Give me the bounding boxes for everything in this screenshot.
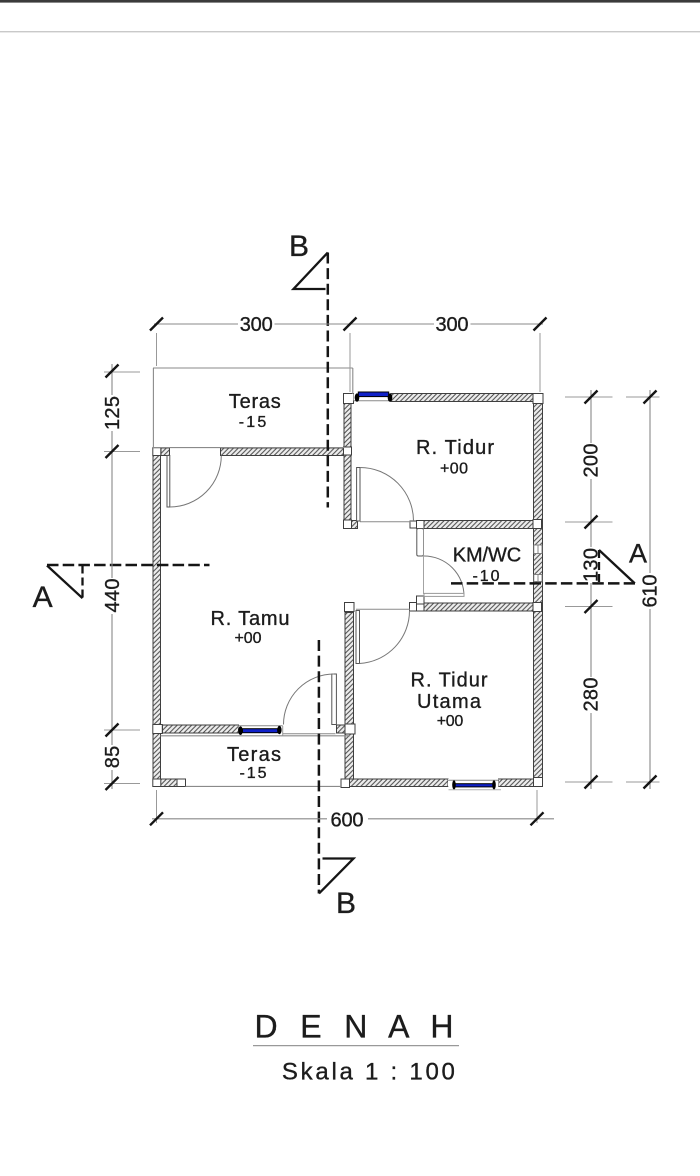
dim text 85 bbox=[102, 745, 121, 770]
wall bottom right east part bbox=[499, 779, 534, 787]
door teras->r.tamu leaf bbox=[167, 456, 170, 508]
post front west corner bbox=[153, 448, 161, 456]
svg-text:610: 610 bbox=[640, 575, 662, 608]
teras bottom slab edge bbox=[186, 785, 342, 787]
post r.tidur utama NW bbox=[345, 603, 355, 612]
post r.tidur NW bbox=[344, 394, 354, 404]
wall west outer bbox=[153, 456, 161, 780]
wall r.tidur south main bbox=[424, 521, 534, 529]
post km/wc west bottom bbox=[417, 596, 425, 604]
ext stub left t4 bbox=[104, 783, 140, 785]
teras right edge bbox=[352, 368, 354, 394]
title underline bbox=[253, 1045, 459, 1047]
vent gap east wall upper bbox=[534, 545, 542, 554]
wall r.tidur west lower bbox=[344, 455, 351, 521]
svg-text:200: 200 bbox=[581, 444, 603, 478]
threshold line utama door bbox=[356, 608, 410, 610]
ext stub far t4 bbox=[626, 781, 660, 783]
tick far t4 bbox=[644, 776, 657, 789]
wall r.tidur south stub bbox=[351, 521, 358, 529]
dim text 300 left bbox=[238, 314, 275, 333]
svg-text:B: B bbox=[336, 887, 356, 920]
tick left t1 bbox=[106, 365, 119, 378]
post r.tamu front west bbox=[153, 725, 163, 734]
tick top mid bbox=[344, 318, 357, 331]
section line A left bbox=[47, 564, 210, 567]
ext stub right t2 bbox=[565, 521, 613, 523]
svg-text:R. Tidur: R. Tidur bbox=[416, 437, 494, 459]
door r.tidur leaf bbox=[357, 468, 360, 522]
wall bottom left piece bbox=[161, 779, 178, 787]
dim text 130 bbox=[581, 547, 600, 583]
tick top right bbox=[534, 318, 547, 331]
door km/wc arc bbox=[424, 556, 464, 596]
dim text 300 right bbox=[434, 314, 471, 333]
section line B bottom bbox=[318, 640, 321, 894]
svg-text:125: 125 bbox=[102, 396, 124, 430]
svg-text:+00: +00 bbox=[235, 630, 262, 647]
dim line left bbox=[111, 364, 113, 789]
post utama door jamb bbox=[410, 603, 417, 612]
section mark A left triangle bbox=[47, 566, 83, 599]
svg-text:85: 85 bbox=[102, 746, 124, 769]
dim line top bbox=[154, 323, 543, 325]
post r.tidur west bottom bbox=[344, 520, 352, 529]
tick left t2 bbox=[106, 445, 119, 458]
vent gap east wall lower bbox=[534, 575, 542, 582]
teras slab line below r.tamu front wall bbox=[161, 735, 351, 737]
dim text 600 bbox=[327, 810, 368, 829]
svg-text:440: 440 bbox=[102, 579, 124, 613]
tick right t1 bbox=[585, 391, 598, 404]
svg-text:Teras: Teras bbox=[229, 391, 281, 413]
door main entry arc bbox=[284, 674, 335, 725]
wall r.tamu east lower bbox=[345, 734, 354, 779]
section mark A right triangle bbox=[599, 550, 635, 583]
door km/wc panel bbox=[417, 529, 424, 557]
section mark B top triangle bbox=[294, 253, 328, 290]
door main entry leaf bbox=[332, 674, 337, 725]
wall north (r.tidur top) bbox=[391, 394, 533, 402]
ext stub far t1 bbox=[626, 396, 660, 398]
svg-text:R. Tamu: R. Tamu bbox=[211, 608, 290, 630]
wall east outer bbox=[534, 394, 543, 787]
dim line bottom bbox=[152, 818, 554, 820]
threshold line r.tidur door bbox=[360, 521, 411, 523]
tick bottom left bbox=[150, 812, 163, 825]
ext line bottom right bbox=[536, 790, 538, 823]
svg-text:-15: -15 bbox=[239, 414, 267, 431]
post r.tamu front east bbox=[345, 724, 355, 734]
wall r.tamu front right bbox=[337, 725, 346, 733]
dim text 610 bbox=[640, 573, 659, 609]
wall r.tamu front left bbox=[163, 725, 239, 733]
svg-text:-10: -10 bbox=[473, 568, 500, 585]
ext line top right bbox=[539, 333, 541, 392]
svg-text:Utama: Utama bbox=[417, 691, 482, 713]
svg-text:+00: +00 bbox=[440, 460, 468, 477]
svg-text:B: B bbox=[289, 230, 309, 263]
tick right t3 bbox=[585, 600, 598, 613]
wall front left stub bbox=[161, 448, 170, 456]
wall front main (teras south) bbox=[221, 448, 345, 456]
threshold line front door bbox=[283, 733, 336, 735]
wall r.tamu east upper bbox=[345, 613, 354, 725]
post SE corner bbox=[534, 778, 543, 787]
tick bottom right bbox=[531, 812, 544, 825]
door r.tidur arc bbox=[360, 468, 414, 522]
section line A right bbox=[451, 582, 635, 585]
door km/wc leaf open bbox=[424, 593, 464, 596]
ext stub right t4 bbox=[565, 781, 613, 783]
post km/wc west wall foot bbox=[417, 603, 425, 612]
svg-text:A: A bbox=[33, 581, 53, 614]
svg-text:Skala 1 : 100: Skala 1 : 100 bbox=[282, 1059, 455, 1086]
post teras pier bbox=[177, 779, 186, 787]
svg-text:+00: +00 bbox=[437, 713, 464, 730]
teras left edge bbox=[152, 368, 154, 448]
top page divider line bbox=[0, 31, 700, 32]
tick right t4 bbox=[585, 776, 598, 789]
dim text 440 bbox=[102, 578, 121, 614]
window utama south bbox=[448, 779, 501, 790]
top page bar bbox=[0, 0, 700, 3]
post r.tidur NE bbox=[533, 394, 543, 404]
post km/wc west wall head bbox=[417, 521, 425, 529]
ext line top mid bbox=[349, 333, 351, 392]
dim line right inner bbox=[590, 390, 592, 789]
post SW corner bbox=[153, 779, 161, 787]
ext stub right t1 bbox=[565, 396, 613, 398]
dim line right outer bbox=[649, 390, 651, 789]
tick left t3 bbox=[106, 724, 119, 737]
dim text 125 bbox=[102, 395, 121, 431]
svg-text:280: 280 bbox=[581, 678, 603, 712]
svg-text:A: A bbox=[629, 539, 647, 569]
wall r.tidur west upper bbox=[344, 401, 351, 448]
door teras->r.tamu arc bbox=[170, 456, 222, 508]
post km/wc door top jamb bbox=[410, 521, 417, 528]
ext stub right t3 bbox=[565, 606, 613, 608]
door utama leaf bbox=[356, 611, 360, 664]
post east wall at km/wc south bbox=[533, 603, 542, 612]
teras top edge bbox=[153, 367, 353, 369]
dim text 200 bbox=[581, 443, 600, 479]
post utama SW corner bbox=[341, 779, 350, 788]
tick far t1 bbox=[644, 391, 657, 404]
dim text 280 bbox=[581, 677, 600, 713]
svg-text:Teras: Teras bbox=[227, 744, 281, 766]
door utama arc bbox=[360, 611, 410, 664]
window r.tidur north bbox=[354, 392, 393, 402]
ext stub left t1 bbox=[104, 371, 140, 373]
ext stub left t2 bbox=[104, 451, 140, 453]
ext stub left t3 bbox=[104, 729, 140, 731]
teras bottom thin line bbox=[153, 447, 344, 449]
tick left t4 bbox=[106, 777, 119, 790]
svg-text:600: 600 bbox=[331, 810, 364, 832]
ext line top left bbox=[156, 333, 158, 366]
section line B top bbox=[327, 253, 330, 508]
tick right t2 bbox=[585, 516, 598, 529]
km/wc west inner face line bbox=[423, 529, 425, 595]
post front / r.tidur west bbox=[344, 447, 352, 455]
svg-text:KM/WC: KM/WC bbox=[453, 545, 522, 567]
post east wall at r.tidur south bbox=[533, 520, 542, 529]
tick top left bbox=[150, 318, 163, 331]
wall bottom right west part bbox=[350, 779, 449, 787]
window r.tamu front bbox=[238, 725, 282, 735]
svg-text:R. Tidur: R. Tidur bbox=[411, 670, 488, 692]
svg-text:-15: -15 bbox=[240, 765, 267, 782]
section mark B bottom triangle bbox=[319, 859, 354, 894]
wall km/wc south bbox=[424, 603, 534, 611]
svg-text:300: 300 bbox=[240, 314, 273, 336]
svg-text:300: 300 bbox=[436, 314, 469, 336]
ext line bottom left bbox=[156, 790, 158, 823]
